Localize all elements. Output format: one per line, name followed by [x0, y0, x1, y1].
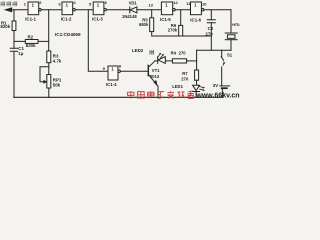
op-amp gate IC1-5 [161, 2, 172, 15]
wire collector row [155, 60, 173, 62]
op-amp gate IC1-4 [108, 66, 118, 80]
label 测试棒 (test probe text) [1, 1, 17, 6]
wire IC1-6 output rail [204, 9, 231, 11]
wire supply column [196, 50, 198, 70]
svg-text:6: 6 [105, 0, 108, 5]
svg-text:LED2: LED2 [132, 48, 144, 53]
wire IC1-3 to VD1 [106, 9, 129, 11]
node probe junction [13, 10, 15, 21]
wire VT1 emitter to ground rail [157, 86, 159, 97]
svg-text:IC1-6: IC1-6 [190, 17, 201, 22]
svg-text:LED1: LED1 [172, 84, 183, 89]
wire VD1 to IC1-5 [137, 9, 162, 11]
svg-text:IC1-5: IC1-5 [160, 17, 171, 22]
switch S1 [221, 50, 223, 56]
svg-text:IC1-2: IC1-2 [61, 17, 72, 22]
node feedback column [48, 10, 50, 51]
resistor R4 [172, 59, 186, 63]
wire IC1-5 to IC1-6 [175, 9, 190, 11]
wire probe to IC1-1 [12, 9, 28, 11]
svg-text:2: 2 [39, 0, 42, 5]
svg-text:10: 10 [202, 2, 207, 7]
svg-text:VD1: VD1 [129, 1, 138, 6]
node IC1-4 branch column [88, 10, 108, 71]
svg-text:270: 270 [181, 76, 189, 81]
wire R5 to bias rail [152, 32, 212, 36]
svg-text:4.7k: 4.7k [53, 58, 62, 63]
wire R2 row [14, 40, 49, 42]
svg-text:www.66kv.cn: www.66kv.cn [195, 93, 239, 100]
probe arrow [5, 8, 11, 12]
wire RP1 to ground rail [48, 88, 50, 97]
potentiometer RP1 wiper loop [40, 67, 49, 82]
op-amp gate IC1-2 [62, 2, 73, 15]
resistor R2 [25, 40, 38, 44]
battery 3V [220, 85, 230, 87]
svg-text:IC1-3: IC1-3 [92, 17, 103, 22]
ground rail (bottom wire) [14, 96, 223, 98]
resistor R7 [195, 70, 199, 80]
svg-text:R2: R2 [28, 34, 34, 39]
diode VD1 1N4148 [129, 7, 131, 13]
op-amp gate IC1-3 [93, 2, 104, 15]
node R6 branch [180, 10, 182, 26]
wire R3 to RP1 [48, 63, 50, 75]
svg-text:12: 12 [173, 0, 178, 5]
svg-text:270: 270 [179, 50, 187, 55]
node C2 branch [210, 10, 212, 20]
svg-text:1μ: 1μ [18, 51, 23, 56]
op-amp gate IC1-1 [28, 2, 39, 15]
resistor R3 [47, 51, 51, 63]
LED LED2 red [157, 57, 159, 64]
wire IC1-4 to VT1 base [120, 70, 147, 72]
resistor R5 [150, 18, 154, 32]
svg-text:9013: 9013 [150, 74, 160, 79]
svg-text:1N4148: 1N4148 [122, 14, 137, 19]
svg-text:820k: 820k [0, 24, 10, 29]
svg-text:R7: R7 [182, 71, 188, 76]
wire LED1 to ground rail [195, 92, 197, 98]
svg-text:R4: R4 [171, 50, 177, 55]
svg-text:IC1-4: IC1-4 [106, 82, 117, 87]
svg-text:S1: S1 [227, 52, 233, 57]
svg-text:C1: C1 [18, 46, 24, 51]
svg-text:270k: 270k [168, 27, 178, 32]
svg-text:IC1:CD4069: IC1:CD4069 [55, 32, 81, 37]
buzzer HTD [230, 10, 232, 33]
svg-text:8: 8 [119, 63, 122, 68]
svg-text:1: 1 [24, 1, 27, 6]
label 红 [150, 50, 154, 54]
capacitor C2 [207, 20, 215, 23]
wire IC1-1 to IC1-2 [41, 9, 62, 11]
svg-text:IC1-1: IC1-1 [25, 17, 36, 22]
svg-text:3V: 3V [213, 83, 218, 88]
svg-text:680k: 680k [139, 22, 149, 27]
svg-text:13: 13 [148, 2, 153, 7]
svg-text:4: 4 [73, 0, 76, 5]
svg-text:HTD: HTD [232, 23, 240, 27]
resistor R1 [12, 21, 16, 31]
wire C1 to ground rail [13, 51, 15, 97]
LED LED1 [193, 85, 200, 90]
resistor R6 [179, 25, 183, 36]
wire C2 to supply node [210, 23, 212, 50]
svg-text:5: 5 [89, 1, 92, 6]
wire supply row [197, 49, 231, 51]
wire IC1-2 to IC1-3 [75, 9, 93, 11]
wire R7 to LED1 [196, 80, 198, 85]
potentiometer RP1 [47, 75, 51, 89]
wire R1 to node [13, 31, 15, 49]
svg-text:270: 270 [205, 31, 213, 36]
svg-text:820k: 820k [26, 43, 36, 48]
svg-text:9: 9 [103, 66, 106, 71]
op-amp gate IC1-6 [191, 2, 202, 15]
transistor VT1 9013 [147, 65, 149, 75]
svg-text:3: 3 [58, 1, 61, 6]
wire battery to ground rail [221, 88, 223, 97]
svg-text:50k: 50k [53, 83, 61, 88]
svg-text:VT1: VT1 [152, 68, 160, 73]
watermark 中国电子爱好者 [128, 91, 194, 98]
capacitor C1 [10, 48, 17, 51]
wire R4 to supply column [187, 60, 197, 62]
